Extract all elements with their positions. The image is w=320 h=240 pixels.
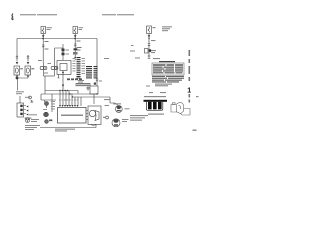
- svg-text:1: 1: [187, 88, 191, 95]
